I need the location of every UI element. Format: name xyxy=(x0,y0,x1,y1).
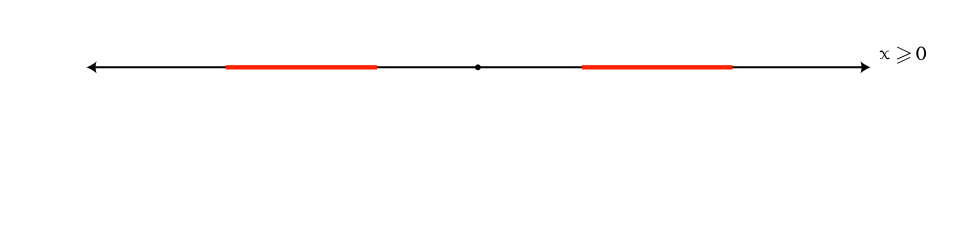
label: geqslant symbol xyxy=(897,47,910,63)
node dot xyxy=(475,64,481,70)
label: digit 0 xyxy=(916,47,926,61)
red segment 1 xyxy=(226,65,377,69)
left arrowhead xyxy=(86,61,97,73)
wire: main number line xyxy=(94,66,863,68)
red segment 2 xyxy=(582,65,733,69)
right arrowhead xyxy=(860,61,871,73)
label: italic x xyxy=(880,51,889,59)
